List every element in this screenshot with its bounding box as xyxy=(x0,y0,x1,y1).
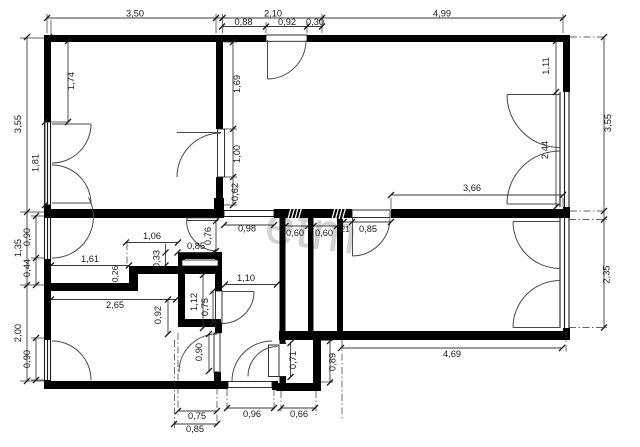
svg-text:3,66: 3,66 xyxy=(463,183,481,193)
dim line left column xyxy=(26,37,28,381)
dim line 1,06 xyxy=(126,242,178,244)
leader right top xyxy=(570,36,604,38)
dim line kitchen wall chain xyxy=(232,42,234,205)
wall mid horizontal left part xyxy=(44,209,218,218)
svg-text:2,65: 2,65 xyxy=(106,300,124,310)
left window upper leaf xyxy=(52,124,91,163)
bottom-right room french door upper xyxy=(513,222,560,269)
axis bottom 316 xyxy=(315,391,317,415)
door frame bathroom 0,90 xyxy=(214,333,220,372)
dim line top row xyxy=(47,17,563,19)
hatched wall segment b xyxy=(332,208,346,219)
dim line left inner upper xyxy=(35,216,37,285)
wall between left room and kitchen lower xyxy=(216,177,223,209)
svg-text:0,85: 0,85 xyxy=(187,241,205,251)
svg-text:1,81: 1,81 xyxy=(31,154,41,172)
closet bottom wall xyxy=(178,319,221,327)
svg-text:0,90: 0,90 xyxy=(194,343,204,361)
closet mid bar / niche wall xyxy=(129,266,221,274)
wall right bottom corner xyxy=(563,328,570,340)
axis bottom 281 xyxy=(280,391,282,412)
svg-text:0,75: 0,75 xyxy=(188,411,206,421)
dim line 0,92 closet xyxy=(167,300,169,335)
bottom-right room door leaf xyxy=(353,218,391,256)
svg-text:0,26: 0,26 xyxy=(110,265,120,282)
svg-text:1,00: 1,00 xyxy=(232,145,242,163)
shaft bar 3 xyxy=(337,218,343,332)
svg-text:0,30: 0,30 xyxy=(306,17,324,27)
ticks vertical dims xyxy=(24,34,607,386)
svg-text:0,60: 0,60 xyxy=(286,228,304,238)
wall bottom of bottom-right room xyxy=(279,331,570,340)
dim line 0,75 closet door xyxy=(212,291,214,323)
ext 3,66 xyxy=(391,198,563,209)
wall left upper (beside 1,74) xyxy=(44,35,51,122)
wall mid horizontal right of 0,98 opening xyxy=(274,209,352,218)
axis bottom 274 xyxy=(273,389,275,412)
svg-text:0,62: 0,62 xyxy=(230,183,240,201)
wall left between windows xyxy=(44,205,51,218)
svg-text:0,71: 0,71 xyxy=(288,351,298,369)
svg-text:1,61: 1,61 xyxy=(81,254,99,264)
closet left wall xyxy=(178,252,185,327)
dim line 0,21 0,85 xyxy=(343,221,391,223)
axis bottom 178 xyxy=(177,333,179,415)
ext top xyxy=(47,14,563,33)
svg-text:0,75: 0,75 xyxy=(200,298,210,316)
WC door arc xyxy=(248,347,278,377)
svg-text:3,55: 3,55 xyxy=(603,114,613,132)
wall bottom of big room xyxy=(391,209,570,218)
dim line 0,90 bath door xyxy=(208,334,210,371)
dim line 4,69 xyxy=(341,347,562,349)
hatched wall segment a xyxy=(288,208,302,219)
shaft bar 2 xyxy=(308,218,314,332)
door frame closet 0,75 xyxy=(216,291,223,323)
door frame WC 0,71 caps xyxy=(280,344,287,377)
svg-text:1,10: 1,10 xyxy=(237,273,255,283)
svg-text:0,92: 0,92 xyxy=(153,306,163,324)
svg-text:0,44: 0,44 xyxy=(22,259,32,277)
svg-text:0,92: 0,92 xyxy=(278,17,296,27)
wall WC left stub below door xyxy=(280,377,287,391)
dim line 0,75 bottom xyxy=(178,410,217,412)
dim line 3,66 xyxy=(391,194,563,196)
ticks horizontal dims xyxy=(44,15,566,427)
shaft bar 1 xyxy=(280,218,286,343)
dim line 1,12 xyxy=(202,275,204,328)
closet top bar xyxy=(178,252,221,259)
svg-text:0,60: 0,60 xyxy=(315,228,333,238)
dim line 1,74 xyxy=(67,41,69,122)
svg-text:1,69: 1,69 xyxy=(232,75,242,93)
svg-text:1,12: 1,12 xyxy=(189,293,199,311)
dim line 3,55 right xyxy=(603,37,605,328)
closet door leaf xyxy=(222,292,254,324)
door frame left room 1,00 xyxy=(218,129,225,177)
wall top-right segment xyxy=(307,35,570,42)
svg-text:0,98: 0,98 xyxy=(238,224,256,234)
ext left xyxy=(20,38,68,381)
svg-text:2,00: 2,00 xyxy=(13,324,23,342)
closet niche slot xyxy=(182,260,218,266)
entrance door leaf xyxy=(268,40,307,79)
entrance door frame 0,92 xyxy=(266,35,307,41)
axis bottom 174 xyxy=(174,340,176,428)
wall stub below bath door xyxy=(214,372,221,382)
mid-wall door arc xyxy=(187,221,217,252)
dim line 1,81 xyxy=(44,122,46,205)
door leaf WC xyxy=(269,345,280,377)
dim line 1,10 xyxy=(225,284,277,286)
dim line 0,76 xyxy=(215,221,217,251)
left window lower leaf xyxy=(52,165,91,204)
dim line 0,60 b xyxy=(314,225,338,227)
window bottom-left room 0,90 xyxy=(45,340,51,380)
lobby south door arc xyxy=(232,341,272,381)
dim line 0,85 hall xyxy=(178,252,214,254)
svg-text:1,11: 1,11 xyxy=(541,57,551,74)
dim line top second row xyxy=(222,26,322,28)
door leaf lobby south 0,96 xyxy=(228,382,272,388)
svg-text:0,96: 0,96 xyxy=(243,409,261,419)
svg-text:0,33: 0,33 xyxy=(152,250,162,268)
dim line 1,61 xyxy=(51,265,129,267)
dim line 0,89 xyxy=(329,341,331,383)
window left room 1,81 xyxy=(45,122,51,205)
axis 1,06 left xyxy=(126,243,128,267)
axis bottom 342 xyxy=(341,340,343,420)
dim line 1,11 2,44 xyxy=(555,41,557,207)
svg-text:,21: ,21 xyxy=(338,225,350,234)
door leaf hall-corridor door xyxy=(187,218,218,221)
dim line 0,33 xyxy=(165,244,167,266)
svg-text:0,85: 0,85 xyxy=(186,424,204,434)
svg-text:0,89: 0,89 xyxy=(328,353,338,371)
dim line 0,60 a xyxy=(286,225,309,227)
window bottom-right room xyxy=(560,218,569,328)
axis bottom 227 xyxy=(226,389,228,412)
door frame bottom-right room 0,85 xyxy=(352,210,390,218)
left room door leaf 1,00 xyxy=(177,133,221,178)
hall wall jog vertical xyxy=(129,266,138,291)
big room french door upper xyxy=(507,95,560,148)
window big room right 2,44 xyxy=(560,92,569,207)
svg-text:3,55: 3,55 xyxy=(13,115,23,133)
wall left bottom corner xyxy=(44,380,51,389)
dim line 0,66 xyxy=(281,407,315,409)
leader right mid xyxy=(570,210,604,212)
svg-text:0,85: 0,85 xyxy=(359,224,377,234)
svg-text:0,88: 0,88 xyxy=(234,17,252,27)
wall piece between lobby door and WC xyxy=(272,381,278,390)
axis 4,69 right xyxy=(565,331,567,352)
wall stub between closet door and bath door xyxy=(215,323,222,333)
dim line 0,96 xyxy=(227,407,274,409)
dim line 2,65 xyxy=(51,299,176,301)
dim line left inner lower xyxy=(35,338,37,380)
svg-text:0,66: 0,66 xyxy=(290,409,308,419)
svg-text:2,35: 2,35 xyxy=(602,265,612,283)
axis bottom 217 xyxy=(216,374,218,428)
svg-text:2,44: 2,44 xyxy=(540,141,550,159)
wall WC right xyxy=(313,340,321,391)
dim line 0,71 xyxy=(290,343,292,377)
wall right upper (1,11) xyxy=(563,35,570,92)
svg-text:4,99: 4,99 xyxy=(433,9,451,19)
leader right bottom 2,35 xyxy=(569,220,607,328)
bottom-left window door arc xyxy=(52,341,91,380)
wall kitchen corner block at mid band xyxy=(214,198,224,218)
svg-text:3,50: 3,50 xyxy=(126,9,144,19)
arc through mid wall xyxy=(52,198,93,259)
hall wall horizontal xyxy=(44,283,138,291)
svg-text:1,06: 1,06 xyxy=(143,231,161,241)
closet right wall xyxy=(215,252,222,291)
big room french door lower xyxy=(507,151,560,204)
ext top-left corner above xyxy=(50,20,52,34)
wall left (0,44 piece) xyxy=(44,259,51,340)
dim line 0,85 bottom xyxy=(174,423,217,425)
svg-text:4,69: 4,69 xyxy=(443,349,461,359)
wall WC bottom xyxy=(276,383,321,391)
wall top-left segment xyxy=(44,35,266,42)
wall between left room and kitchen upper xyxy=(216,38,223,129)
dim line 0,98 xyxy=(224,224,274,226)
window hall 0,90 xyxy=(45,218,51,259)
ext 0,89 xyxy=(321,341,333,382)
ext kitchen chain xyxy=(224,42,237,205)
bathroom door arc xyxy=(179,334,217,372)
wall right middle junction xyxy=(563,207,570,218)
watermark xyxy=(261,194,361,266)
svg-text:1,74: 1,74 xyxy=(66,72,76,90)
opening 0,98 kitchen pass xyxy=(224,211,274,217)
wall bottom of bottom-left room xyxy=(44,381,228,389)
svg-text:0,90: 0,90 xyxy=(22,350,32,368)
bottom-right room french door lower xyxy=(513,281,560,328)
svg-text:0,90: 0,90 xyxy=(22,228,32,246)
